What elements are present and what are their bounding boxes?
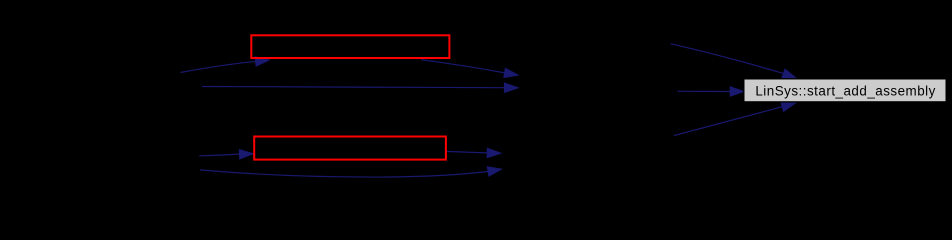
edge Mt->gray [671, 44, 797, 79]
edge nodeA->R1 [181, 57, 270, 73]
node R1 (red truncated caller box, label hidden) [251, 35, 449, 58]
edge nodeB->R2 [199, 149, 254, 159]
node R2 (red truncated caller box, label hidden) [254, 137, 446, 160]
edge R2->M2 [447, 148, 502, 158]
edge nodeA->M1 [202, 83, 519, 93]
node LinSys::start_add_assembly (current function, grey filled) [744, 79, 946, 102]
svg-text:LinSys::start_add_assembly: LinSys::start_add_assembly [755, 83, 935, 98]
edge M2->gray [674, 102, 796, 136]
edge M1->gray [678, 86, 745, 96]
edge nodeB->M2 [200, 167, 502, 178]
edge R1->M1 [421, 60, 519, 78]
